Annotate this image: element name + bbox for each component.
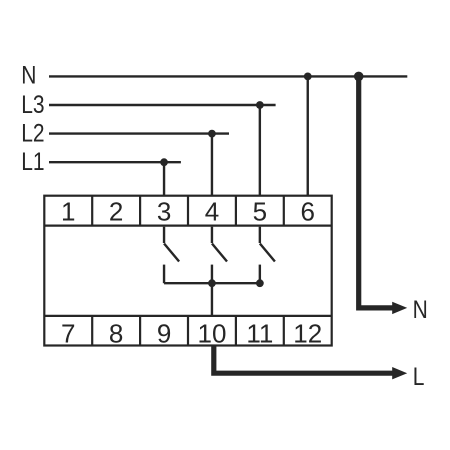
wire L2 horizontal (49, 132, 229, 134)
svg-text:11: 11 (246, 318, 273, 348)
svg-text:L3: L3 (21, 90, 44, 118)
svg-text:4: 4 (205, 197, 219, 227)
switch S2 lower stub (211, 265, 213, 284)
bottom row cell dividers (92, 316, 284, 346)
wire common bus (164, 282, 260, 284)
svg-text:2: 2 (109, 197, 123, 227)
switch S2 upper stub (211, 227, 213, 243)
svg-text:N: N (21, 61, 36, 89)
junction dot bus right end (256, 279, 264, 287)
svg-text:6: 6 (301, 197, 315, 227)
switch S3 lower stub (259, 265, 261, 284)
wire drop N to terminal 6 (307, 76, 309, 196)
wire drop L3 to terminal 5 (259, 105, 261, 196)
junction dot L3 (256, 101, 264, 109)
divider below top terminal row (44, 225, 331, 227)
svg-text:5: 5 (253, 197, 267, 227)
wire drop L2 to terminal 4 (211, 134, 213, 196)
svg-text:7: 7 (61, 318, 75, 348)
junction dot N to terminal 6 (304, 73, 312, 81)
svg-text:L: L (413, 362, 425, 390)
junction dot bus center (208, 279, 216, 287)
wire bus to terminal 10 (211, 283, 213, 316)
svg-text:N: N (413, 295, 428, 323)
switch S1 lower stub and bus elbow (163, 265, 165, 284)
svg-text:3: 3 (157, 197, 171, 227)
svg-text:8: 8 (109, 318, 123, 348)
wire drop L1 to terminal 3 (163, 162, 165, 196)
switch S1 blade (164, 244, 179, 262)
svg-text:9: 9 (157, 318, 171, 348)
wire thick L output (214, 346, 393, 374)
switch S1 upper stub (163, 227, 165, 243)
junction dot L1 (160, 158, 168, 166)
svg-text:L2: L2 (21, 119, 44, 147)
junction dot L2 (208, 130, 216, 138)
divider above bottom terminal row (44, 315, 331, 317)
device body outline (44, 196, 331, 346)
junction dot N thick (354, 72, 364, 82)
switch S2 blade (212, 244, 227, 262)
arrowhead N output (392, 302, 407, 314)
arrowhead L output (392, 367, 407, 379)
wire L3 horizontal (49, 104, 276, 106)
top row cell dividers (92, 196, 284, 226)
svg-text:12: 12 (293, 318, 322, 348)
wire thick N output (359, 76, 393, 308)
switch S3 upper stub (259, 227, 261, 243)
wire L1 horizontal (49, 161, 181, 163)
wire N horizontal (49, 75, 407, 77)
switch S3 blade (260, 244, 275, 262)
svg-text:10: 10 (197, 318, 226, 348)
svg-text:L1: L1 (21, 147, 44, 175)
svg-text:1: 1 (61, 197, 75, 227)
